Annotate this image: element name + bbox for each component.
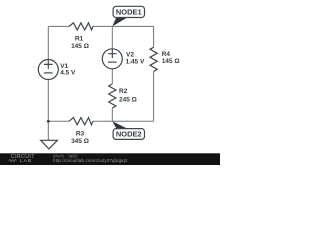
wire top middle (R1 to node1 to right corner)	[93, 25, 154, 27]
node NODE1 label	[113, 6, 144, 17]
wire bottom right (R3 to node2 to corner)	[93, 120, 154, 122]
svg-text:R2: R2	[119, 88, 128, 95]
watermark logo LAB with resistor glyph	[9, 159, 17, 161]
wire top-left horizontal	[48, 25, 69, 27]
svg-text:4.5 V: 4.5 V	[60, 70, 76, 77]
svg-text:R1: R1	[75, 36, 84, 43]
svg-text:LAB: LAB	[20, 158, 32, 164]
label R4 value	[162, 51, 180, 65]
svg-text:145 Ω: 145 Ω	[162, 58, 180, 65]
node NODE2 label	[113, 129, 144, 140]
label R3 value	[71, 130, 89, 145]
svg-text:NODE2: NODE2	[116, 130, 142, 139]
label V2 value	[126, 52, 145, 66]
resistor R1	[69, 23, 93, 30]
svg-text:345 Ω: 345 Ω	[71, 138, 89, 145]
label R1 value	[71, 36, 89, 51]
wire right vertical upper (corner to R4)	[153, 26, 155, 47]
svg-text:1.45 V: 1.45 V	[126, 58, 145, 65]
svg-text:http://circuitlab.com/c/u2y37q: http://circuitlab.com/c/u2y37qbqpq2	[53, 158, 128, 163]
node NODE1 tail	[112, 17, 127, 26]
svg-text:NODE1: NODE1	[116, 8, 142, 17]
voltage source V1	[38, 60, 58, 80]
svg-text:R3: R3	[76, 130, 85, 137]
wire bottom left (junction to R3)	[48, 120, 69, 122]
wire R2 to node2	[111, 108, 113, 121]
wire V2 branch upper (node1 down to V2)	[111, 26, 113, 49]
node NODE2 tail	[112, 121, 127, 129]
ground	[41, 140, 58, 149]
junction dot at V1/ground/R3	[47, 120, 50, 123]
resistor R3	[69, 118, 93, 125]
watermark footer bar	[0, 153, 220, 165]
voltage source V2	[102, 49, 122, 69]
wire left vertical lower (V1 to ground)	[47, 79, 49, 140]
svg-text:145 Ω: 145 Ω	[71, 43, 89, 50]
label R2 value	[119, 88, 137, 104]
svg-text:245 Ω: 245 Ω	[119, 97, 137, 104]
wire V2 to R2	[111, 69, 113, 85]
wire left vertical upper (corner to V1)	[47, 26, 49, 59]
resistor R4	[150, 47, 157, 71]
svg-text:R4: R4	[162, 51, 171, 58]
resistor R2	[109, 84, 116, 108]
label V1 value	[60, 63, 76, 77]
wire right vertical lower (R4 to bottom corner)	[153, 72, 155, 122]
